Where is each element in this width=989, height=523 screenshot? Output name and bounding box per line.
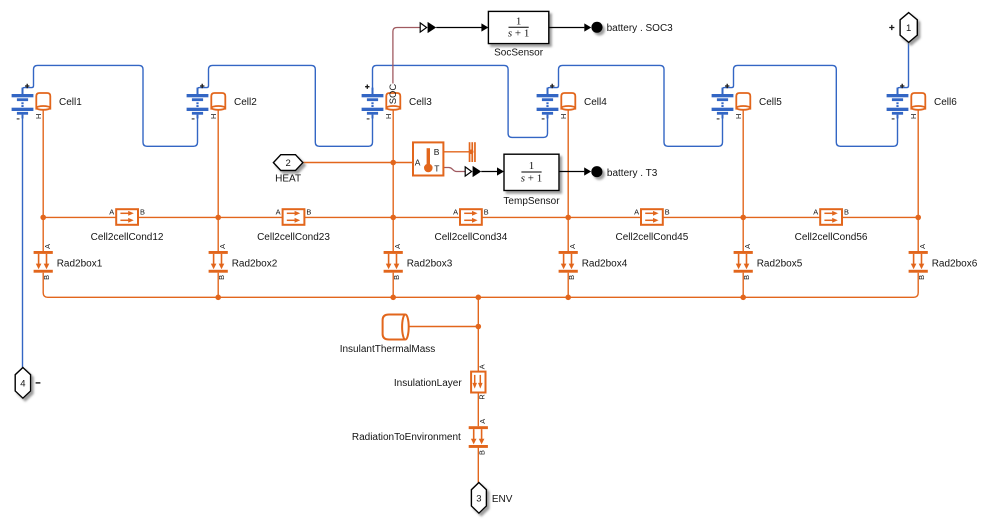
svg-text:B: B [434, 147, 440, 157]
label - of port 4 [36, 382, 41, 384]
svg-text:B: B [917, 275, 926, 280]
battery Cell5 [712, 84, 751, 119]
svg-text:SocSensor: SocSensor [494, 47, 544, 58]
wire converter to TempSensor [481, 171, 497, 173]
wire Cell1.+ to Cell2.- (blue series link) [23, 65, 198, 146]
port 2 HEAT [273, 155, 303, 171]
conductive-heat-transfer Cell2cellCond23 [276, 207, 312, 224]
svg-text:4: 4 [20, 378, 25, 389]
svg-text:Cell2cellCond56: Cell2cellCond56 [795, 232, 868, 243]
radiative-heat-transfer Rad2box2 [209, 251, 228, 273]
wire Cell4.+ to Cell5.- (blue series link) [548, 65, 723, 146]
wire Cell3.SOC to converter (physical signal) [393, 28, 420, 84]
terminator battery.SOC3 [591, 22, 602, 33]
wire TempSensorBlock T to converter (physical signal) [443, 168, 465, 172]
wire Rad2box3.B to bus [392, 273, 394, 298]
svg-text:s + 1: s + 1 [521, 172, 543, 184]
svg-text:B: B [484, 207, 489, 216]
svg-text:A: A [415, 157, 421, 167]
battery Cell2 [187, 84, 226, 119]
terminator battery.T3 [591, 166, 602, 177]
svg-text:A: A [393, 244, 402, 249]
svg-text:Cell2: Cell2 [234, 97, 257, 108]
wire Rad2box2.B to bus [217, 273, 219, 298]
svg-text:B: B [42, 275, 51, 280]
svg-text:A: A [478, 419, 487, 424]
wire Cell5.H vertical [742, 110, 744, 252]
svg-text:Cell2cellCond45: Cell2cellCond45 [615, 232, 688, 243]
svg-text:1: 1 [529, 160, 535, 172]
svg-text:T: T [434, 163, 439, 173]
port 1 (+) top right [900, 13, 917, 43]
svg-text:2: 2 [285, 158, 290, 169]
wire Cell2.+ to Cell3.- (blue series link) [198, 65, 373, 146]
svg-text:A: A [743, 244, 752, 249]
svg-text:A: A [568, 244, 577, 249]
svg-text:ENV: ENV [492, 494, 513, 505]
wire Cell6.+ up to port 1 [898, 43, 909, 95]
wire HEAT to TempSensorBlock A [303, 162, 413, 164]
wire InsulantThermalMass to node [407, 326, 478, 328]
wire bus down to InsulationLayer A [477, 297, 479, 371]
svg-text:Cell2cellCond23: Cell2cellCond23 [257, 232, 330, 243]
svg-text:B: B [217, 275, 226, 280]
port 4 (-) left [15, 368, 30, 399]
thermal reference (comb) [469, 142, 476, 162]
svg-text:B: B [567, 275, 576, 280]
svg-text:B: B [392, 275, 401, 280]
svg-text:A: A [109, 207, 114, 216]
svg-text:B: B [306, 207, 311, 216]
svg-text:H: H [34, 114, 43, 119]
transfer function SocSensor [488, 11, 548, 43]
svg-text:H: H [909, 114, 918, 119]
node junction (218,217) [215, 215, 221, 221]
node junction (393,297) [390, 295, 396, 301]
battery Cell3 [362, 84, 401, 119]
conductive-heat-transfer InsulationLayer (vertical) [471, 372, 485, 393]
battery Cell4 [537, 84, 576, 119]
wire Cell3.+ to Cell4.- (blue series link) [373, 65, 548, 137]
radiative-heat-transfer Rad2box5 [734, 251, 753, 273]
svg-text:InsulantThermalMass: InsulantThermalMass [340, 344, 436, 355]
battery Cell1 [12, 84, 51, 119]
svg-text:A: A [453, 207, 458, 216]
svg-text:H: H [559, 114, 568, 119]
port 3 ENV bottom [471, 483, 486, 514]
node junction (743,217) [740, 215, 746, 221]
wire Cell4.H vertical [567, 110, 569, 252]
svg-text:B: B [665, 207, 670, 216]
wire Cell1.- down to port 4 [22, 115, 24, 368]
conductive-heat-transfer Cell2cellCond56 [813, 207, 849, 224]
wire Rad2box5.B to bus [742, 273, 744, 298]
wire conduction row (horizontal, y=217) [43, 216, 116, 218]
svg-text:A: A [478, 364, 487, 369]
svg-text:s + 1: s + 1 [508, 28, 530, 40]
svg-text:InsulationLayer: InsulationLayer [394, 378, 462, 389]
wire Cell3.H vertical [392, 110, 394, 252]
svg-text:Cell5: Cell5 [759, 97, 782, 108]
svg-text:HEAT: HEAT [275, 174, 301, 185]
svg-text:1: 1 [516, 15, 522, 27]
svg-text:Cell2cellCond34: Cell2cellCond34 [434, 232, 507, 243]
svg-text:B: B [844, 207, 849, 216]
svg-text:H: H [209, 114, 218, 119]
svg-text:A: A [918, 244, 927, 249]
wire SocSensor to scope circle [549, 27, 585, 29]
node junction (393,217) [390, 215, 396, 221]
svg-text:Rad2box6: Rad2box6 [932, 258, 978, 269]
svg-text:3: 3 [476, 493, 481, 504]
svg-text:Cell1: Cell1 [59, 97, 82, 108]
conductive-heat-transfer Cell2cellCond12 [109, 207, 145, 224]
node junction (478,326) [476, 324, 482, 330]
svg-text:H: H [384, 114, 393, 119]
temperature sensor block (orange, thermometer icon) [413, 142, 443, 175]
svg-text:R: R [477, 394, 486, 399]
svg-text:Rad2box3: Rad2box3 [407, 258, 453, 269]
svg-text:Rad2box4: Rad2box4 [582, 258, 628, 269]
node junction (743,297) [740, 295, 746, 301]
conductive-heat-transfer Cell2cellCond34 [453, 207, 489, 224]
thermal mass InsulantThermalMass (cylinder) [383, 315, 409, 340]
svg-text:SOC: SOC [388, 84, 399, 105]
svg-text:Rad2box2: Rad2box2 [232, 258, 278, 269]
wire Cell1.H vertical [42, 110, 44, 252]
svg-text:1: 1 [906, 23, 911, 34]
svg-text:Cell2cellCond12: Cell2cellCond12 [91, 232, 164, 243]
wire Rad2box4.B to bus [567, 273, 569, 298]
svg-text:Cell6: Cell6 [934, 97, 957, 108]
node junction (393,162) [390, 160, 396, 166]
svg-text:battery . SOC3: battery . SOC3 [607, 23, 674, 34]
svg-text:B: B [477, 450, 486, 455]
svg-text:B: B [742, 275, 751, 280]
wire Cell2.H vertical [217, 110, 219, 252]
svg-text:battery . T3: battery . T3 [607, 168, 658, 179]
node junction (568,297) [565, 295, 571, 301]
node junction (43,217) [40, 215, 46, 221]
transfer function TempSensor [504, 154, 559, 190]
svg-text:Rad2box1: Rad2box1 [57, 258, 103, 269]
radiative-heat-transfer RadiationToEnvironment [469, 426, 488, 448]
svg-text:Cell3: Cell3 [409, 97, 432, 108]
wire Cell6.H vertical [917, 110, 919, 252]
svg-text:A: A [276, 207, 281, 216]
svg-text:Cell4: Cell4 [584, 97, 607, 108]
svg-text:A: A [813, 207, 818, 216]
node junction (478,297) [476, 295, 482, 301]
svg-text:A: A [43, 244, 52, 249]
label + of port 1 [889, 25, 894, 30]
radiative-heat-transfer Rad2box3 [384, 251, 403, 273]
wire RadiationToEnvironment B to port 3 ENV [477, 446, 479, 482]
svg-text:A: A [634, 207, 639, 216]
converter (PS-Simulink) for SOC [420, 23, 426, 32]
radiative-heat-transfer Rad2box6 [909, 251, 928, 273]
wire Cell5.+ to Cell6.- (blue series link) [723, 65, 898, 146]
node junction (568,217) [565, 215, 571, 221]
wire bottom bus from Rad2box1 to Rad2box6 [43, 273, 918, 298]
wire TempSensor to scope circle [559, 171, 584, 173]
radiative-heat-transfer Rad2box1 [34, 251, 53, 273]
wire InsulationLayer R to RadiationToEnvironment A [477, 393, 479, 427]
svg-text:A: A [218, 244, 227, 249]
converter (PS-Simulink) for T [465, 167, 471, 176]
svg-text:B: B [140, 207, 145, 216]
node junction (218,297) [215, 295, 221, 301]
radiative-heat-transfer Rad2box4 [559, 251, 578, 273]
svg-text:RadiationToEnvironment: RadiationToEnvironment [352, 432, 461, 443]
battery Cell6 [887, 84, 926, 119]
svg-text:H: H [734, 114, 743, 119]
svg-text:TempSensor: TempSensor [503, 196, 560, 207]
svg-text:Rad2box5: Rad2box5 [757, 258, 803, 269]
conductive-heat-transfer Cell2cellCond45 [634, 207, 670, 224]
wire converter to SocSensor [436, 27, 481, 29]
wire TempSensorBlock B to thermal reference [443, 151, 472, 153]
node junction (918,217) [915, 215, 921, 221]
